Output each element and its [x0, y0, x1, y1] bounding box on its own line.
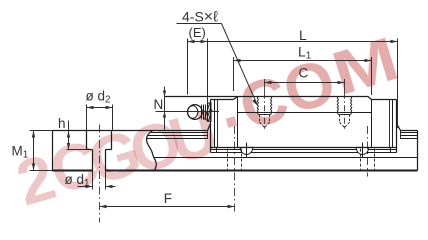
- threaded hole 2 drill point left: [340, 122, 345, 127]
- L/E left arrow at 187.5 pointing left: [188, 40, 195, 43]
- left end plate top: [211, 99, 234, 101]
- C dimension line: [265, 82, 345, 84]
- d1 right arrow pointing left: [106, 185, 113, 188]
- rail groove line 1 right: [400, 132, 418, 134]
- right seal rail lip flare: [397, 124, 401, 131]
- right seal inner line 2: [389, 100, 391, 148]
- rail groove line 3 left: [147, 138, 208, 140]
- rail side top edge right segment: [401, 130, 418, 132]
- hidden rail hole 1 dashed left: [227, 149, 229, 171]
- svg-text:4-S×ℓ: 4-S×ℓ: [182, 9, 218, 26]
- M1 top arrow: [32, 131, 35, 138]
- threaded hole 2 core dashed right: [349, 115, 351, 123]
- threaded hole 1 bottom: [258, 114, 271, 116]
- L1 right arrow: [365, 59, 372, 62]
- block body top: [165, 96, 369, 98]
- C left arrow: [265, 81, 272, 84]
- M1 dimension vertical: [33, 131, 35, 171]
- rail groove line 2 left: [148, 135, 208, 137]
- grease nipple thread hatch 2: [207, 106, 212, 121]
- threaded hole 1 core dashed left: [259, 115, 261, 123]
- d2 right arrow: [106, 106, 113, 109]
- rail section left edge: [52, 131, 54, 171]
- block left face: [210, 100, 212, 153]
- right seal lip side edge: [400, 131, 402, 139]
- M1 bottom arrow: [32, 164, 35, 171]
- d2 right extension: [112, 105, 114, 131]
- ball pickup arc left centerline: [246, 143, 248, 158]
- svg-text:h: h: [58, 116, 66, 131]
- hidden rail hole 1 centerline: [234, 126, 236, 212]
- left seal lip tab vertical: [216, 148, 218, 153]
- block right face: [396, 100, 398, 153]
- h lower reference extension: [67, 149, 87, 151]
- threaded hole 1 right thread: [271, 97, 272, 114]
- leader arrowhead: [252, 99, 258, 105]
- rail bottom thick right of hole: [106, 170, 418, 172]
- grease nipple ball: [188, 105, 203, 120]
- threaded hole 1 drill point right: [265, 122, 270, 127]
- d2 dimension line: [87, 107, 113, 109]
- left seal rail lip flare: [208, 124, 211, 131]
- d1 left arrow pointing right: [86, 185, 93, 188]
- L and E dimension line: [188, 41, 398, 43]
- block bottom second line: [211, 149, 397, 151]
- L1 left arrow: [234, 59, 241, 62]
- left seal inner line 2: [217, 100, 219, 148]
- threaded hole 1 centerline: [264, 79, 266, 129]
- grease nipple thread hatch 1: [205, 104, 210, 120]
- left seal lip side edge: [207, 131, 209, 139]
- d2 left arrow: [87, 106, 94, 109]
- right seal lip tab vertical: [390, 148, 392, 153]
- threaded hole 2 drill point right: [345, 122, 350, 127]
- threaded hole 2 left thread: [337, 97, 338, 114]
- M1 top reference: [30, 130, 53, 132]
- threaded hole 2 core dashed left: [339, 115, 341, 123]
- svg-text:C: C: [299, 66, 309, 81]
- block mid line: [238, 112, 372, 114]
- counterbore wall left: [86, 131, 88, 150]
- rail groove line 2 right: [400, 135, 418, 137]
- h dimension vertical: [68, 121, 70, 150]
- grease nipple thread hatch 3: [208, 110, 212, 122]
- F dimension line: [100, 206, 235, 208]
- grease nipple ring 3: [204, 104, 206, 119]
- L1 right extension line: [371, 57, 373, 95]
- arrowheads: [32, 40, 398, 208]
- rail bottom thick left of hole: [52, 170, 93, 172]
- block bottom edge: [211, 147, 397, 149]
- N extension vertical: [164, 87, 166, 131]
- E left extension line: [187, 39, 189, 95]
- h bottom arrow pointing down: [67, 143, 70, 150]
- right end plate chamfer: [368, 97, 372, 100]
- F right arrow: [228, 205, 235, 208]
- left end plate chamfer: [234, 97, 238, 100]
- L right extension line: [397, 39, 399, 129]
- svg-text:(E): (E): [189, 25, 206, 40]
- right end plate inner vertical: [371, 100, 373, 148]
- rail section top edge: [53, 130, 153, 132]
- hidden rail hole 2 centerline: [367, 126, 369, 177]
- threaded hole 1 drill point left: [260, 122, 265, 127]
- d1 right extension: [105, 171, 107, 190]
- h top arrow pointing up: [67, 131, 70, 138]
- rail break curve: [147, 131, 157, 171]
- watermark 2CGOU.COM: [9, 24, 406, 220]
- threaded hole 1 left thread: [257, 97, 258, 114]
- hidden rail hole 2 dashed left: [360, 149, 362, 171]
- nipple centerline / N lower reference: [156, 111, 220, 113]
- N bottom arrow pointing up: [163, 112, 166, 118]
- counterbore bottom right segment: [106, 149, 112, 151]
- E right extension line: [207, 39, 209, 103]
- 4-S leader underline: [177, 23, 222, 25]
- L right arrow pointing right: [391, 40, 398, 43]
- grease nipple ring 2: [203, 105, 205, 120]
- d1 hole wall right: [105, 150, 107, 171]
- right seal inner line 1: [392, 100, 394, 148]
- right end plate top: [372, 99, 397, 101]
- rail side top edge left segment: [153, 130, 208, 132]
- threaded hole 1 core dashed right: [269, 115, 271, 123]
- N top arrow pointing down: [163, 91, 166, 97]
- left end plate inner vertical: [237, 97, 239, 148]
- section hole centerline: [99, 125, 101, 223]
- counterbore wall right: [111, 131, 113, 150]
- grease nipple ring 1: [201, 105, 203, 120]
- threaded hole 2 right thread: [351, 97, 352, 114]
- d2 left extension: [86, 105, 88, 131]
- threaded hole 2 bottom: [338, 114, 351, 116]
- block bottom edge redrawn over arc chords: [239, 147, 254, 149]
- E right arrow pointing right: [201, 40, 208, 43]
- hidden rail hole 1 dashed right: [241, 149, 243, 171]
- rail groove line 3 right: [400, 138, 418, 140]
- svg-text:N: N: [154, 97, 164, 112]
- ball pickup arc right (white fill cuts lines): [356, 148, 368, 155]
- d1 dimension line right part: [106, 186, 116, 188]
- under-block seal line: [211, 152, 397, 154]
- svg-text:L: L: [299, 27, 307, 43]
- L1 dimension line: [234, 60, 372, 62]
- rail groove line 1 left: [151, 132, 208, 134]
- rail end face: [417, 131, 419, 171]
- d1 dimension line left part: [78, 186, 93, 188]
- grease nipple face ellipse: [188, 106, 198, 118]
- 4-S leader diagonal: [222, 24, 258, 106]
- C right arrow: [338, 81, 345, 84]
- counterbore bottom left segment: [87, 149, 93, 151]
- svg-text:F: F: [164, 191, 172, 206]
- d1 left extension: [92, 171, 94, 190]
- ball pickup arc right centerline: [362, 143, 364, 158]
- F left arrow: [100, 205, 107, 208]
- grease nipple flange: [208, 103, 212, 121]
- rail lower side line: [154, 157, 418, 159]
- hidden rail hole 2 dashed right: [374, 149, 376, 171]
- d1 hole wall left: [92, 150, 94, 171]
- threaded hole 2 centerline: [344, 79, 346, 129]
- M1 bottom reference: [30, 170, 53, 172]
- L1 left extension line: [233, 57, 235, 91]
- left seal inner line 1: [214, 100, 216, 148]
- ball pickup arc left (white fill cuts lines): [240, 148, 252, 155]
